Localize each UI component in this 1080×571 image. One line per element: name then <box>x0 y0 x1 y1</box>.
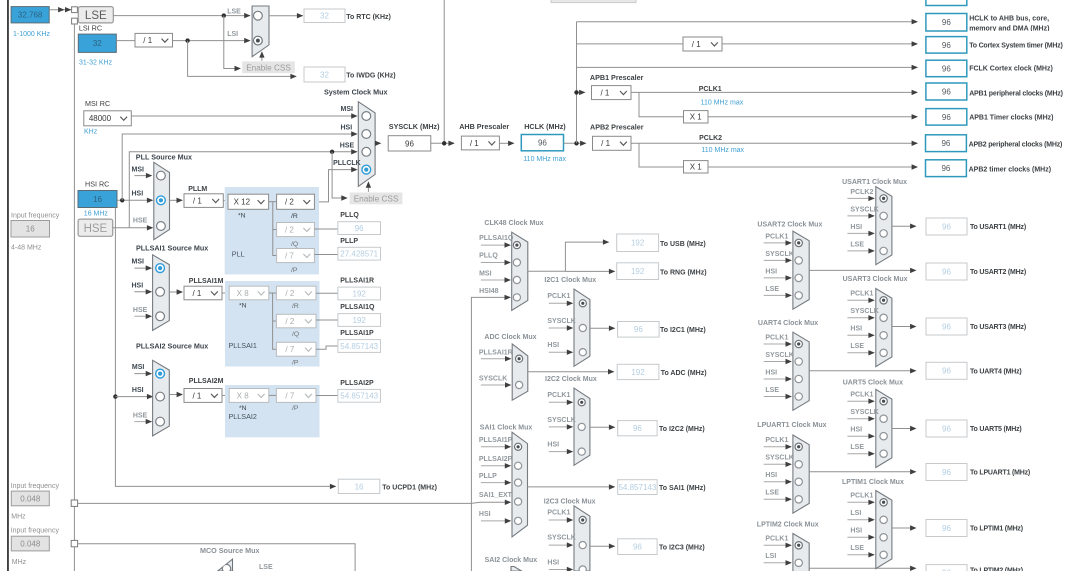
AHB prescaler dropdown /1 <box>461 136 499 150</box>
radio system mux PLLCLK selected <box>362 165 371 174</box>
svg-text:96: 96 <box>942 64 951 73</box>
HSE button <box>78 219 113 236</box>
svg-text:/ 1: / 1 <box>192 391 201 400</box>
mux PLLSAI1 source <box>153 255 170 331</box>
svg-text:32: 32 <box>320 12 329 21</box>
stub arrow input 5 SAI1 Clock Mux <box>481 520 510 522</box>
To RNG output box 192 <box>617 263 659 280</box>
svg-text:PCLK1: PCLK1 <box>765 233 788 240</box>
radio SAI1 Clock Mux input 1 <box>515 443 522 450</box>
stub arrow input 1 UART5 Clock Mux <box>847 400 873 402</box>
PLLSAI1P output box 54.857143 <box>338 340 381 353</box>
svg-text:LSE: LSE <box>85 10 107 22</box>
junction square LSE MCO on trunk <box>71 540 77 546</box>
wire PLLP to box <box>314 254 338 256</box>
stub arrow input 2 LPUART1 Clock Mux <box>764 463 791 465</box>
svg-text:SYSCLK (MHz): SYSCLK (MHz) <box>389 122 440 131</box>
PLLSAI1R output box 192 <box>338 287 381 300</box>
svg-text:LSE: LSE <box>850 241 864 248</box>
wire SAI1_EXT external to mux column trunk <box>78 502 472 504</box>
svg-text:16: 16 <box>26 225 35 234</box>
radio USART1 Clock Mux input 3 <box>880 230 887 237</box>
svg-text:LSE: LSE <box>850 343 864 350</box>
mux SAI2 sliver <box>511 567 522 571</box>
svg-text:USART3 Clock Mux: USART3 Clock Mux <box>843 276 908 283</box>
wire 32.768 to LSE with double arrowheads <box>49 9 71 11</box>
wire trunk to APB1 prescaler <box>577 91 585 93</box>
wire PLLSAI1 mux output to divider <box>169 291 182 293</box>
svg-text:X 12: X 12 <box>234 198 251 207</box>
PLLSAI1Q output box 192 <box>338 314 381 327</box>
svg-text:HSI RC: HSI RC <box>85 180 109 189</box>
wire PLLQ to box <box>314 228 338 230</box>
output box APB1 peripheral 96 <box>926 83 967 100</box>
wire USART3 output <box>892 326 916 328</box>
stub arrow input 1 I2C1 Clock Mux <box>549 302 572 304</box>
wire LSE to MCO source mux <box>78 544 356 571</box>
wire SAI1_EXT into SAI1 mux <box>471 502 510 503</box>
svg-text:/ 7: / 7 <box>285 345 294 354</box>
svg-text:/R: /R <box>291 213 298 220</box>
SYSCLK trunk wire up <box>443 0 445 143</box>
enable CSS button (LSE) <box>242 61 295 73</box>
mux system clock <box>358 102 375 187</box>
svg-text:PLLQ: PLLQ <box>340 212 359 219</box>
PLLSAI2N multiplier dropdown X 8 <box>229 389 269 403</box>
wire LSI box to divider <box>116 40 135 42</box>
svg-text:LSE: LSE <box>227 9 241 16</box>
svg-text:Input frequency: Input frequency <box>11 483 60 490</box>
svg-text:SYSCLK: SYSCLK <box>850 308 878 315</box>
stub arrow input 4 UART4 Clock Mux <box>764 396 791 398</box>
wire LPTIM2 output <box>809 567 915 569</box>
stub arrow input 2 I2C1 Clock Mux <box>549 327 572 329</box>
radio RTC mux LSI selected <box>254 36 263 45</box>
radio CLK48 Clock Mux input 2 <box>513 259 520 266</box>
svg-text:1-1000 KHz: 1-1000 KHz <box>13 31 50 38</box>
To IWDG output box 32 <box>304 67 345 82</box>
SAI1_EXT input frequency box 0.048 <box>11 491 49 506</box>
svg-text:96: 96 <box>633 543 642 552</box>
wire cortex prescaler to output <box>722 43 917 45</box>
svg-text:MCO Source Mux: MCO Source Mux <box>200 546 260 555</box>
stub arrow input 3 SAI1 Clock Mux <box>481 482 510 484</box>
radio I2C2 Clock Mux input 2 <box>578 423 585 430</box>
svg-text:PLLSAI1R: PLLSAI1R <box>340 277 374 284</box>
To I2C3 output box 96 <box>618 539 657 555</box>
svg-text:96: 96 <box>942 113 951 122</box>
left panel edge bar <box>7 0 9 571</box>
stub arrow HSE to PLLSAI2 mux <box>134 421 151 423</box>
output box To USART2 (MHz) 96 <box>926 263 967 280</box>
PLLSAI2M divider dropdown /1 <box>184 389 222 403</box>
stub arrow input 3 UART4 Clock Mux <box>764 378 791 380</box>
svg-text:HSI: HSI <box>765 369 777 376</box>
radio CLK48 Clock Mux input 3 <box>513 276 520 283</box>
radio system mux MSI <box>362 112 371 121</box>
wire HSI branch to PLLSAI2 HSI input <box>115 396 152 398</box>
svg-text:I2C2 Clock Mux: I2C2 Clock Mux <box>545 376 597 383</box>
arrow enable CSS to RTC mux <box>261 54 263 61</box>
svg-text:110 MHz max: 110 MHz max <box>701 99 744 106</box>
To UCPD1 output box 16 <box>338 479 380 493</box>
radio USART1 Clock Mux input 4 <box>880 247 887 254</box>
LSI divider dropdown /1 <box>135 33 173 47</box>
wire PLLSAI1N to dividers <box>269 292 277 294</box>
svg-text:54.857143: 54.857143 <box>618 483 656 492</box>
radio system mux HSI <box>362 130 371 139</box>
svg-text:/ 1: / 1 <box>193 196 202 205</box>
svg-text:MSI: MSI <box>132 259 145 266</box>
svg-text:APB1 Timer clocks (MHz): APB1 Timer clocks (MHz) <box>969 115 1053 122</box>
svg-text:LSE: LSE <box>765 490 779 497</box>
svg-text:PLLP: PLLP <box>340 238 358 245</box>
svg-text:PCLK1: PCLK1 <box>547 293 570 300</box>
radio I2C3 Clock Mux input 2 <box>579 542 586 549</box>
wire I2C3 output <box>590 545 614 547</box>
radio LPTIM2 Clock Mux input 2 <box>795 559 802 566</box>
To ADC output box 192 <box>617 364 659 379</box>
svg-text:Enable CSS: Enable CSS <box>354 195 399 204</box>
svg-text:HSI: HSI <box>132 387 144 394</box>
LSCO input frequency box 0.048 <box>11 536 49 551</box>
svg-text:To UART4 (MHz): To UART4 (MHz) <box>970 368 1022 375</box>
svg-text:LSI: LSI <box>227 31 238 38</box>
svg-text:To LPUART1 (MHz): To LPUART1 (MHz) <box>970 470 1030 477</box>
svg-text:/ 2: / 2 <box>285 198 294 207</box>
stub arrow MSI to PLL mux <box>134 175 151 177</box>
output box To UART5 (MHz) 96 <box>926 420 967 437</box>
svg-text:LPTIM2 Clock Mux: LPTIM2 Clock Mux <box>757 522 819 529</box>
stub arrow input 3 LPTIM1 Clock Mux <box>847 536 873 538</box>
HCLK distribution trunk <box>576 22 578 144</box>
svg-text:I2C3 Clock Mux: I2C3 Clock Mux <box>544 498 596 505</box>
stub arrow input 1 LPUART1 Clock Mux <box>764 446 791 448</box>
radio UART4 Clock Mux input 3 <box>795 375 802 382</box>
svg-text:Input frequency: Input frequency <box>11 212 60 219</box>
output box To LPTIM1 (MHz) 96 <box>926 520 967 537</box>
svg-text:PLL: PLL <box>232 250 245 259</box>
svg-text:96: 96 <box>942 267 951 276</box>
svg-text:32.768: 32.768 <box>18 11 43 20</box>
svg-text:PLLSAI2: PLLSAI2 <box>229 412 257 421</box>
radio CLK48 Clock Mux input 4 <box>513 294 520 301</box>
svg-text:SYSCLK: SYSCLK <box>479 376 507 383</box>
stub arrow input 2 CLK48 Clock Mux <box>481 262 510 264</box>
svg-text:SYSCLK: SYSCLK <box>547 535 575 542</box>
svg-text:/ 1: / 1 <box>143 36 152 45</box>
radio UART5 Clock Mux input 1 <box>880 398 887 405</box>
wire PLLSAI1M to N <box>222 292 229 294</box>
enable CSS button (system) <box>350 193 403 205</box>
LSI frequency box 32 <box>78 34 116 52</box>
stub arrow input 3 I2C2 Clock Mux <box>549 451 572 453</box>
PLLP output box 27.428571 <box>338 247 381 260</box>
svg-text:192: 192 <box>353 289 367 298</box>
stub arrow HSE to PLLSAI1 mux <box>134 315 151 317</box>
SYSCLK value box 96 <box>388 136 431 151</box>
stub arrow input 1 I2C3 Clock Mux <box>549 519 572 521</box>
svg-text:HSI: HSI <box>765 472 777 479</box>
wire PLL mux output to PLLM <box>170 199 182 201</box>
stub arrow input 2 USART1 Clock Mux <box>847 215 873 217</box>
radio PLLSAI1 mux HSE <box>156 312 165 321</box>
wire LSI divider to RTC mux LSI input <box>173 40 250 42</box>
wire RTC mux output to RTC box <box>269 15 302 17</box>
radio LPUART1 Clock Mux input 2 <box>795 461 802 468</box>
svg-text:PCLK1: PCLK1 <box>850 392 873 399</box>
radio USART2 Clock Mux input 2 <box>795 257 802 264</box>
svg-text:/ 2: / 2 <box>285 225 294 234</box>
radio UART4 Clock Mux input 1 <box>795 340 802 347</box>
svg-text:PLLSAI1 Source Mux: PLLSAI1 Source Mux <box>136 243 208 252</box>
mux RTC clock source <box>252 6 269 57</box>
svg-text:LSE: LSE <box>765 387 779 394</box>
svg-text:USART1 Clock Mux: USART1 Clock Mux <box>842 179 907 186</box>
svg-text:SAI2 Clock Mux: SAI2 Clock Mux <box>485 557 538 564</box>
svg-text:HSI: HSI <box>132 282 144 289</box>
svg-text:54.857143: 54.857143 <box>340 342 378 351</box>
wire SAI1 output <box>528 486 615 488</box>
output box HCLK to AHB 96 <box>926 14 967 32</box>
radio LPTIM1 Clock Mux input 4 <box>880 551 887 558</box>
svg-text:To SAI1 (MHz): To SAI1 (MHz) <box>659 485 706 492</box>
partially scrolled output box above HCLK <box>926 0 967 6</box>
To I2C2 output box 96 <box>618 421 657 436</box>
stub arrow HSI to PLLSAI1 mux <box>134 291 151 293</box>
junction square SAI1_EXT on trunk <box>71 500 77 506</box>
output box APB2 timer 96 <box>926 160 967 177</box>
svg-text:HSE: HSE <box>340 142 355 149</box>
wire HSI48 trunk to CLK48 mux <box>471 297 510 571</box>
svg-text:HCLK (MHz): HCLK (MHz) <box>524 122 566 131</box>
svg-text:192: 192 <box>631 239 645 248</box>
svg-text:PLLSAI2M: PLLSAI2M <box>189 378 224 385</box>
wire PLLSAI1P to box <box>316 346 338 349</box>
PLL block background <box>225 187 319 274</box>
radio SAI1 Clock Mux input 2 <box>515 462 522 469</box>
svg-text:16: 16 <box>93 195 102 204</box>
PLLSAI2P divider dropdown /7 <box>276 389 316 403</box>
radio ADC Clock Mux input 1 <box>516 355 523 362</box>
stub arrow input 2 UART4 Clock Mux <box>764 361 791 363</box>
svg-text:*N: *N <box>238 213 246 220</box>
svg-text:PCLK1: PCLK1 <box>765 536 788 543</box>
svg-text:SAI1 Clock Mux: SAI1 Clock Mux <box>480 424 533 431</box>
svg-text:HSE: HSE <box>133 307 148 314</box>
wire PLLSAI2N to divider <box>269 394 277 396</box>
svg-text:Input frequency: Input frequency <box>11 527 60 534</box>
arrow enable CSS to system mux <box>367 184 369 192</box>
APB1 prescaler dropdown /1 <box>592 86 632 100</box>
svg-text:APB2 timer clocks (MHz): APB2 timer clocks (MHz) <box>969 166 1051 173</box>
radio PLL mux HSE <box>157 222 166 231</box>
svg-text:96: 96 <box>634 325 643 334</box>
wire USART2 output <box>809 269 915 271</box>
radio I2C3 Clock Mux input 1 <box>579 516 586 523</box>
output box APB2 peripheral 96 <box>926 135 967 152</box>
wire ADC output <box>528 371 614 373</box>
svg-text:To USB (MHz): To USB (MHz) <box>660 241 706 248</box>
svg-text:96: 96 <box>538 139 547 148</box>
svg-text:LPUART1 Clock Mux: LPUART1 Clock Mux <box>757 422 826 429</box>
mux PLLSAI2 source <box>153 360 170 436</box>
svg-text:To I2C2 (MHz): To I2C2 (MHz) <box>659 426 705 433</box>
stub arrow input 1 SAI1 Clock Mux <box>481 446 510 448</box>
svg-text:96: 96 <box>942 18 951 27</box>
svg-text:SAI1_EXT: SAI1_EXT <box>479 492 513 499</box>
LSE button <box>78 7 113 23</box>
svg-text:0.048: 0.048 <box>20 494 41 503</box>
wire HSI down to PLLSAI2 mux and UCPD1 <box>115 208 335 487</box>
svg-text:PLLQ: PLLQ <box>479 253 498 260</box>
stub arrow input 1 ADC Clock Mux <box>481 358 511 360</box>
svg-text:PLLSAI1P: PLLSAI1P <box>340 330 374 337</box>
wire HCLK to APB2 prescaler <box>564 142 586 144</box>
stub arrow input 2 I2C3 Clock Mux <box>549 544 572 546</box>
stub arrow input 2 USART3 Clock Mux <box>847 317 873 319</box>
LSE crystal frequency box 32.768 <box>11 7 49 23</box>
radio ADC Clock Mux input 2 <box>516 381 523 388</box>
wire HSI up to system clock mux <box>122 134 356 200</box>
stub arrow input 4 USART1 Clock Mux <box>847 250 873 252</box>
svg-text:0.048: 0.048 <box>20 539 41 548</box>
HSE input frequency box 16 <box>11 221 50 238</box>
MSI RC dropdown 48000 <box>84 111 132 126</box>
svg-text:/ 2: / 2 <box>285 289 294 298</box>
svg-text:HSI: HSI <box>850 224 862 231</box>
stub arrow input 1 CLK48 Clock Mux <box>481 244 510 246</box>
svg-text:96: 96 <box>942 322 951 331</box>
output box To LPUART1 (MHz) 96 <box>926 464 967 481</box>
svg-text:HSE: HSE <box>84 223 108 235</box>
svg-text:27.428571: 27.428571 <box>340 250 378 259</box>
radio PLLSAI2 mux HSI <box>156 392 165 401</box>
svg-text:To RNG (MHz): To RNG (MHz) <box>660 269 707 276</box>
PLLSAI1P divider dropdown /7 <box>276 342 316 356</box>
stub arrow input 3 USART2 Clock Mux <box>764 277 791 279</box>
svg-text:LPTIM1 Clock Mux: LPTIM1 Clock Mux <box>842 479 904 486</box>
PLLR divider dropdown /2 <box>277 194 315 209</box>
PLLQ output box 96 <box>338 222 381 235</box>
APB2 timer multiplier X 1 <box>684 161 709 173</box>
HCLK value box 96 active <box>521 135 563 151</box>
wire LPUART1 output <box>809 471 915 473</box>
svg-text:PCLK2: PCLK2 <box>850 189 873 196</box>
svg-text:PCLK1: PCLK1 <box>850 493 873 500</box>
svg-text:To Cortex System timer (MHz): To Cortex System timer (MHz) <box>969 42 1062 49</box>
svg-text:PLLSAI2P: PLLSAI2P <box>340 380 374 387</box>
svg-text:HSI: HSI <box>547 342 559 349</box>
svg-text:HSI: HSI <box>479 511 491 518</box>
output box FCLK 96 <box>926 60 967 76</box>
svg-text:LSE: LSE <box>850 444 864 451</box>
stub arrow input 4 USART3 Clock Mux <box>847 352 873 354</box>
wire PLLM to PLLN <box>223 200 228 202</box>
PLLSAI1 block background <box>225 281 320 367</box>
svg-text:/Q: /Q <box>291 241 298 248</box>
svg-text:/P: /P <box>292 360 299 367</box>
radio CLK48 Clock Mux input 1 <box>513 242 520 249</box>
svg-text:96: 96 <box>942 524 951 533</box>
svg-text:LSI: LSI <box>850 510 861 517</box>
svg-text:CLK48 Clock Mux: CLK48 Clock Mux <box>484 220 543 227</box>
svg-text:96: 96 <box>942 41 951 50</box>
svg-text:PCLK2: PCLK2 <box>699 135 722 142</box>
wire HSE up to system clock mux <box>129 152 356 228</box>
wire CLK48 output to USB and RNG <box>528 242 609 271</box>
svg-text:/ 1: / 1 <box>470 139 479 148</box>
stub arrow input 4 LPUART1 Clock Mux <box>764 498 791 500</box>
svg-text:HSI: HSI <box>850 528 862 535</box>
svg-text:MSI: MSI <box>341 106 354 113</box>
stub arrow input 4 LPTIM1 Clock Mux <box>847 554 873 556</box>
stub arrow input 1 USART3 Clock Mux <box>847 299 873 301</box>
svg-text:MSI: MSI <box>479 271 492 278</box>
svg-text:31-32 KHz: 31-32 KHz <box>79 59 113 66</box>
radio USART3 Clock Mux input 1 <box>880 297 887 304</box>
svg-text:HSI: HSI <box>341 125 353 132</box>
wire PLLSAI1R to box <box>316 292 338 294</box>
wire HCLK to cortex timer prescaler <box>577 43 684 45</box>
radio USART2 Clock Mux input 4 <box>795 292 802 299</box>
radio LPUART1 Clock Mux input 1 <box>795 443 802 450</box>
svg-text:/Q: /Q <box>292 331 299 338</box>
svg-text:MHz: MHz <box>11 513 26 520</box>
stub arrow input 4 UART5 Clock Mux <box>847 453 873 455</box>
svg-text:110 MHz max: 110 MHz max <box>701 147 744 154</box>
wire UART5 output <box>892 428 916 430</box>
radio UART5 Clock Mux input 2 <box>880 415 887 422</box>
wire PLLSAI2M to N <box>222 394 229 396</box>
wire LSE button to RTC mux <box>113 15 249 17</box>
To I2C1 output box 96 <box>618 322 660 338</box>
output box cortex timer 96 <box>926 37 967 54</box>
svg-text:54.857143: 54.857143 <box>340 392 378 401</box>
radio SAI1 Clock Mux input 3 <box>515 479 522 486</box>
svg-text:96: 96 <box>941 164 950 173</box>
wire APB2 to peripheral clocks output <box>631 142 917 144</box>
wire X1 to APB1 timer output <box>708 116 917 118</box>
svg-text:SYSCLK: SYSCLK <box>765 352 793 359</box>
svg-text:PCLK1: PCLK1 <box>547 510 570 517</box>
wire PLLSAI2 mux output to divider <box>169 394 182 396</box>
svg-text:/ 1: / 1 <box>192 289 201 298</box>
svg-text:PLLSAI1R: PLLSAI1R <box>479 349 513 356</box>
wire APB2 branch to X1 multiplier <box>639 143 684 167</box>
svg-text:HSI: HSI <box>850 326 862 333</box>
stub arrow input 2 ADC Clock Mux <box>481 384 511 386</box>
svg-text:/R: /R <box>292 303 299 310</box>
svg-text:PLLP: PLLP <box>479 473 497 480</box>
wire HSI box to PLL source mux <box>117 199 152 201</box>
svg-text:X 1: X 1 <box>690 113 703 122</box>
svg-text:96: 96 <box>942 424 951 433</box>
svg-text:SYSCLK: SYSCLK <box>547 417 575 424</box>
svg-text:MSI: MSI <box>132 364 145 371</box>
PLLSAI2 block background <box>225 385 320 437</box>
radio PLL mux MSI <box>157 171 166 180</box>
partially scrolled box top left <box>551 0 636 3</box>
PLLQ divider dropdown /2 <box>277 223 315 237</box>
wire FCLK output <box>577 66 918 68</box>
radio UART5 Clock Mux input 3 <box>880 433 887 440</box>
radio PLLSAI1 mux MSI selected <box>156 264 165 273</box>
svg-text:*N: *N <box>239 405 247 412</box>
svg-text:PLLSAI2P: PLLSAI2P <box>479 456 513 463</box>
radio I2C1 Clock Mux input 3 <box>579 349 586 356</box>
radio SAI1 Clock Mux input 5 <box>515 517 522 524</box>
